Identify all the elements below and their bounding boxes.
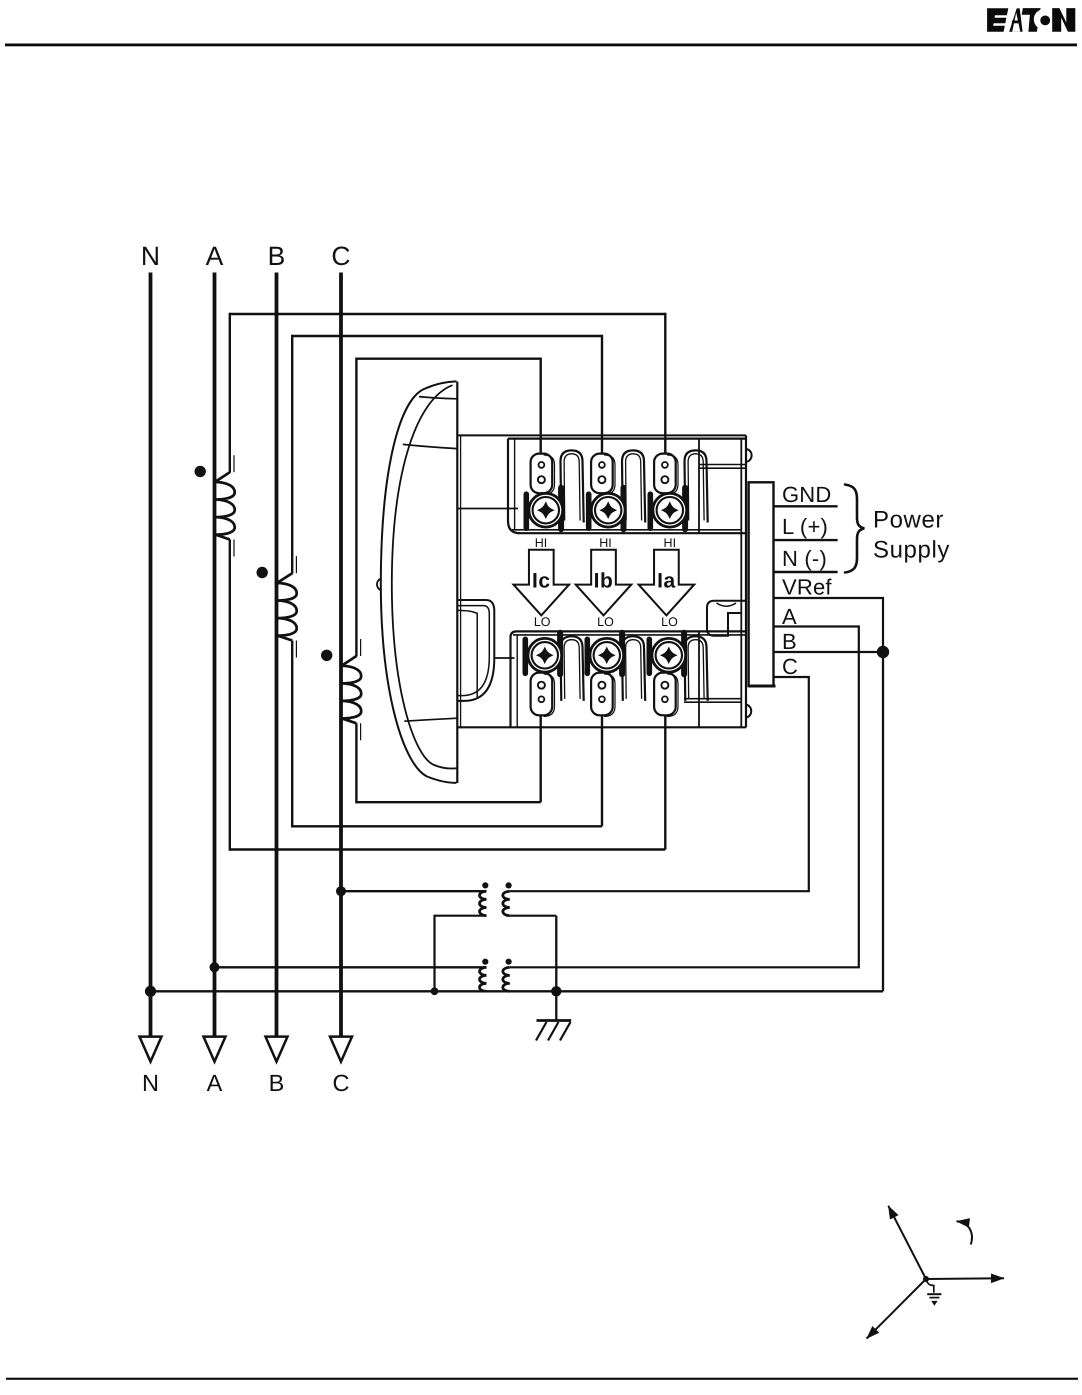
PT1 polarity dots bbox=[482, 882, 488, 888]
phasor vector lower-left (Vc) bbox=[867, 1279, 926, 1339]
dome bottom facet lines bbox=[404, 718, 457, 721]
node PT primary common junction bbox=[431, 987, 439, 995]
phase line C (vertical service conductor) bbox=[339, 273, 343, 1047]
right support bracket bbox=[707, 601, 745, 636]
meter dome cover inner arc bbox=[392, 385, 457, 768]
wire: CT B secondary left drop bbox=[291, 335, 293, 574]
PT2 primary winding bbox=[479, 967, 486, 991]
socket body right wall bbox=[740, 439, 742, 728]
top block inner bottom edge bbox=[512, 529, 741, 531]
bottom block right divider bbox=[698, 631, 700, 727]
arrowhead B bottom bbox=[266, 1037, 288, 1062]
screw Ic LO bbox=[522, 639, 528, 673]
wire PT1 primary bottom lead bbox=[435, 916, 487, 990]
node: C phase to PT1 primary junction bbox=[336, 886, 346, 896]
CT B ghost line bbox=[295, 556, 297, 573]
phase line N (vertical service conductor) bbox=[149, 273, 153, 1047]
svg-text:HI: HI bbox=[664, 536, 677, 550]
dome top facet lines bbox=[419, 397, 457, 399]
handle middle contour bbox=[458, 606, 490, 696]
top terminal block outline bbox=[508, 439, 746, 534]
phase line A (vertical service conductor) bbox=[213, 273, 217, 1047]
socket body lower-right shelf bbox=[684, 698, 741, 700]
Eaton logo bbox=[987, 8, 1041, 32]
wire common bus N (bottom horizontal) bbox=[151, 990, 884, 992]
CT coil C (current transformer on phase C) bbox=[342, 656, 362, 723]
CT B polarity dot bbox=[257, 567, 268, 578]
svg-text:N: N bbox=[142, 1070, 159, 1096]
rotation arrow bbox=[957, 1221, 972, 1244]
meter dome right edge bbox=[456, 382, 458, 784]
wire A terminal to PT2 secondary bbox=[510, 627, 859, 968]
terminal tab Ib LO bbox=[591, 673, 613, 716]
wire VRef bbox=[774, 598, 884, 651]
phasor origin dot bbox=[923, 1276, 929, 1282]
right terminal strip bbox=[749, 482, 774, 686]
phase line B (vertical service conductor) bbox=[275, 273, 279, 1047]
terminal tab Ic LO bbox=[531, 673, 553, 716]
current arrow Ic bbox=[514, 550, 570, 616]
terminal tab Ia LO bbox=[654, 673, 676, 716]
phasor ground symbol bbox=[927, 1281, 934, 1293]
wire: CT C secondary bottom return bbox=[356, 801, 540, 803]
current arrow Ib bbox=[576, 550, 632, 616]
wire PT1 secondary drop to ground bbox=[555, 916, 557, 1021]
svg-text:N: N bbox=[141, 241, 160, 271]
wire: CT B secondary bottom return bbox=[292, 825, 602, 827]
svg-text:L (+): L (+) bbox=[782, 514, 828, 539]
svg-text:B: B bbox=[782, 629, 797, 654]
svg-text:C: C bbox=[331, 241, 350, 271]
CT A ghost line bbox=[233, 455, 235, 472]
wire: meter Ia LO drop bbox=[664, 715, 666, 849]
top block separator fin 2 bbox=[622, 450, 645, 522]
phasor vector upper-left (Vb) bbox=[888, 1206, 926, 1279]
ground symbol bbox=[537, 1019, 572, 1022]
CT C ghost line bbox=[360, 639, 362, 656]
wire PT2 primary top lead bbox=[215, 966, 487, 968]
wire B terminal bbox=[774, 651, 879, 653]
handle inner lines bbox=[458, 610, 477, 613]
svg-text:HI: HI bbox=[535, 536, 548, 550]
socket body left rim bbox=[460, 435, 462, 727]
svg-text:Ic: Ic bbox=[532, 570, 551, 593]
socket left handle outline bbox=[458, 600, 495, 701]
PT1 secondary winding bbox=[503, 891, 510, 915]
wire: meter Ic LO drop bbox=[540, 715, 542, 802]
svg-text:Ib: Ib bbox=[594, 570, 614, 593]
svg-text:GND: GND bbox=[782, 482, 832, 507]
wire: CT A secondary bottom return bbox=[230, 848, 666, 850]
svg-text:A: A bbox=[782, 604, 797, 629]
screw Ia HI bbox=[647, 494, 653, 528]
screw Ic HI bbox=[523, 494, 529, 528]
dome left seal bump bbox=[377, 579, 382, 591]
wire: CT A secondary left drop bbox=[229, 313, 231, 473]
screw Ia LO bbox=[646, 639, 652, 673]
svg-text:Power: Power bbox=[873, 507, 944, 534]
top block separator fin 1 bbox=[561, 450, 584, 522]
socket right-wall top bump bbox=[746, 449, 752, 462]
terminal tab Ib HI bbox=[591, 454, 613, 494]
bottom block separator fin 3 bbox=[685, 636, 708, 701]
svg-text:HI: HI bbox=[599, 536, 612, 550]
wire: CT C secondary left drop bbox=[355, 358, 357, 657]
svg-text:C: C bbox=[782, 654, 798, 679]
svg-text:B: B bbox=[269, 1070, 285, 1096]
wire: meter Ib LO drop bbox=[601, 715, 603, 826]
wire: CT A secondary right drop to meter Ia HI terminal bbox=[664, 313, 666, 455]
socket body bottom edge bbox=[457, 726, 746, 728]
PT1 primary winding bbox=[480, 891, 487, 915]
power supply brace bbox=[845, 485, 864, 573]
bottom terminal block outline bbox=[511, 631, 747, 727]
screw Ib LO bbox=[584, 639, 590, 673]
meter dome cover outer arc bbox=[381, 381, 457, 782]
svg-text:N (-): N (-) bbox=[782, 546, 827, 571]
arrowhead N bottom bbox=[140, 1037, 162, 1062]
wire: CT B secondary right drop to meter Ib HI terminal bbox=[601, 335, 603, 455]
bottom block separator fin 1 bbox=[561, 636, 584, 701]
wire PT1 secondary bottom lead bbox=[510, 915, 556, 917]
top block right divider bbox=[698, 439, 700, 534]
socket body top edge bbox=[457, 434, 746, 436]
wire VRef/B drop to common bus bbox=[882, 652, 884, 991]
wire: CT C secondary right drop to meter Ic HI terminal bbox=[540, 358, 542, 455]
svg-text:LO: LO bbox=[597, 615, 614, 629]
header rule bbox=[5, 44, 1077, 47]
top block separator fin 3 bbox=[685, 450, 708, 522]
arrowhead C bottom bbox=[330, 1037, 352, 1062]
svg-text:A: A bbox=[207, 1070, 223, 1096]
node PT secondary / ground junction bbox=[551, 986, 561, 996]
footer rule bbox=[6, 1378, 1078, 1380]
wire: CT B secondary top run bbox=[292, 335, 602, 337]
bottom block inner top edge bbox=[513, 634, 746, 636]
terminal tab Ia HI bbox=[654, 454, 676, 494]
wire C terminal to PT1 secondary bbox=[510, 677, 809, 891]
bottom block separator fin 2 bbox=[622, 636, 645, 701]
top block inner left edge bbox=[514, 439, 516, 529]
CT A polarity dot bbox=[195, 466, 206, 477]
PT2 secondary winding bbox=[503, 967, 510, 991]
svg-text:B: B bbox=[268, 241, 286, 271]
current arrow Ia bbox=[639, 550, 695, 616]
phasor vector right (Va) bbox=[926, 1277, 1004, 1280]
wire PT1 primary top lead bbox=[341, 890, 486, 892]
separator under GND bbox=[774, 505, 838, 507]
CT coil B (current transformer on phase B) bbox=[277, 573, 297, 640]
svg-text:C: C bbox=[333, 1070, 350, 1096]
svg-text:Supply: Supply bbox=[873, 537, 950, 564]
svg-text:Ia: Ia bbox=[657, 570, 676, 593]
node: N phase to common bottom bus junction bbox=[145, 986, 156, 997]
svg-text:LO: LO bbox=[661, 615, 678, 629]
wire stub handle to bottom block bbox=[494, 657, 515, 659]
node: A phase to PT2 primary junction bbox=[210, 962, 220, 972]
wire: CT A secondary top run bbox=[230, 313, 666, 315]
node B/VRef junction bbox=[877, 646, 889, 658]
bottom block inner left edge bbox=[516, 635, 518, 727]
separator under N (-) bbox=[774, 571, 838, 573]
svg-text:LO: LO bbox=[534, 615, 551, 629]
socket right-wall bottom bump bbox=[746, 705, 751, 718]
wire stub dome to top block bbox=[458, 508, 518, 510]
CT C polarity dot bbox=[321, 650, 332, 661]
CT coil A (current transformer on phase A) bbox=[215, 472, 235, 539]
svg-text:VRef: VRef bbox=[782, 574, 832, 599]
arrowhead A bottom bbox=[204, 1037, 226, 1062]
wire: CT C secondary top run bbox=[356, 358, 540, 360]
separator under L (+) bbox=[774, 539, 838, 541]
top block right double shelf bbox=[699, 464, 746, 466]
terminal tab Ic HI bbox=[531, 454, 553, 494]
screw Ib HI bbox=[586, 494, 592, 528]
svg-text:A: A bbox=[206, 241, 224, 271]
PT2 polarity dots bbox=[482, 959, 488, 965]
